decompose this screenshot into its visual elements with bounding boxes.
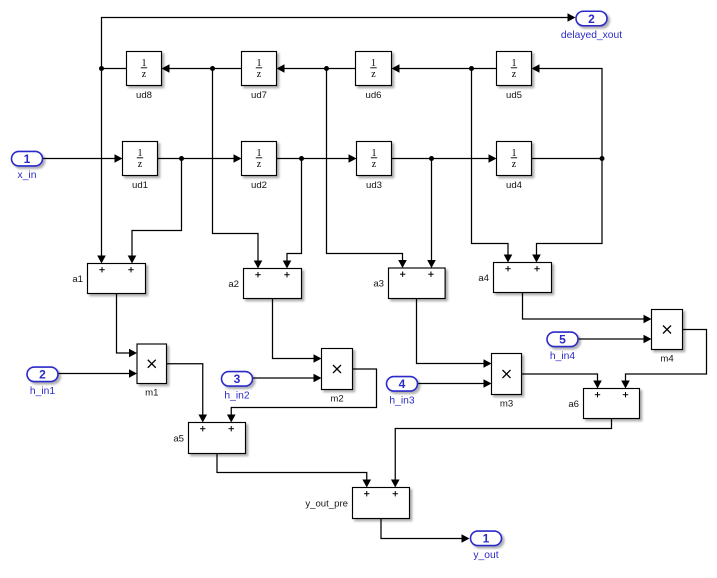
svg-text:1: 1 (372, 148, 377, 159)
svg-text:2: 2 (588, 12, 595, 26)
wire h_in1 to m1 input 2 (58, 369, 138, 378)
svg-text:1: 1 (512, 148, 517, 159)
svg-text:1: 1 (257, 58, 262, 69)
svg-text:a4: a4 (478, 273, 489, 284)
wire m3 output right then down to adder a6 input 1 (522, 374, 602, 389)
wire h_in2 to m2 input 2 (253, 374, 322, 383)
svg-text:1: 1 (371, 58, 376, 69)
wire tap ud3 output straight down to adder a3 input 2 (427, 159, 436, 269)
inport 4 h_in3 (387, 377, 418, 407)
svg-text:2: 2 (39, 368, 46, 382)
junction ud5 output tap (469, 66, 474, 71)
svg-text:a2: a2 (228, 279, 239, 290)
adder y_out_pre (305, 488, 409, 519)
wire ud1 output to ud2 input (158, 154, 242, 163)
wire h_in4 to m4 input 2 (579, 335, 652, 344)
wire m4 output right, down, left to adder a6 input 2 (621, 330, 706, 389)
svg-text:a6: a6 (568, 399, 579, 410)
wire h_in3 to m3 input 2 (418, 379, 492, 388)
junction ud7 output tap (210, 66, 215, 71)
multiplier m1 (137, 344, 167, 399)
svg-text:m4: m4 (660, 354, 674, 365)
wire ud2 output to ud3 input (277, 154, 357, 163)
svg-text:4: 4 (399, 377, 406, 391)
wire tap ud5 output down and right to adder a4 input 1 (472, 69, 513, 263)
junction ud1 output tap (179, 156, 184, 161)
wire ud4 output right then up to ud5 input (532, 64, 603, 158)
svg-text:ud8: ud8 (136, 90, 152, 101)
adder a2 (228, 269, 301, 299)
wire net delayed_xout: ud8 output up and across to output port (102, 13, 576, 68)
inport 1 x_in (12, 151, 43, 181)
svg-text:h_in4: h_in4 (550, 351, 575, 362)
svg-text:1: 1 (142, 58, 147, 69)
wire tap ud7 output down and right to adder a2 input 1 (213, 69, 263, 269)
inport 2 h_in1 (27, 367, 58, 397)
svg-text:a1: a1 (72, 274, 83, 285)
wire m2 output right, down, left to adder a5 input 2 (227, 369, 377, 423)
svg-text:z: z (142, 69, 147, 80)
unit delay ud5 (497, 52, 532, 101)
wire a6 output down then left to y_out_pre input 2 (391, 419, 612, 488)
svg-text:1: 1 (257, 148, 262, 159)
inport 5 h_in4 (547, 332, 578, 362)
adder a1 (72, 264, 145, 294)
unit delay ud6 (356, 52, 392, 101)
wire tap ud1 output down then left to adder a1 input 2 (128, 159, 182, 264)
junction ud6 output tap (324, 66, 329, 71)
outport 1 y_out (471, 531, 502, 561)
svg-text:1: 1 (24, 152, 31, 166)
unit delay ud3 (357, 142, 392, 191)
svg-text:ud7: ud7 (251, 90, 267, 101)
unit delay ud4 (497, 142, 532, 191)
svg-text:ud3: ud3 (366, 180, 382, 191)
wire ud7 output to ud8 input (162, 64, 242, 73)
svg-text:h_in3: h_in3 (389, 395, 414, 406)
svg-text:3: 3 (234, 372, 241, 386)
svg-text:h_in1: h_in1 (30, 386, 55, 397)
svg-text:delayed_xout: delayed_xout (561, 30, 622, 41)
svg-text:z: z (257, 159, 262, 170)
multiplier m4 (652, 310, 683, 365)
svg-text:a5: a5 (173, 433, 184, 444)
junction ud8 output / delayed_xout / a1 tap (99, 66, 104, 71)
svg-text:m1: m1 (145, 388, 158, 399)
svg-text:ud4: ud4 (506, 180, 523, 191)
svg-text:z: z (512, 69, 517, 80)
unit delay ud2 (242, 142, 277, 191)
wire ud8 output to feedback node (102, 68, 127, 70)
svg-text:5: 5 (559, 333, 566, 347)
svg-text:z: z (257, 69, 262, 80)
junction ud2 output tap (299, 156, 304, 161)
svg-text:ud6: ud6 (365, 90, 381, 101)
wire ud5 output to ud6 input (392, 64, 497, 73)
wire a1 output down then right to multiplier m1 input 1 (117, 294, 138, 358)
inport 3 h_in2 (222, 372, 253, 402)
adder a5 (173, 423, 245, 454)
svg-text:z: z (372, 159, 377, 170)
wire tap ud4 output down then left to adder a4 input 2 (532, 159, 602, 263)
wire tap ud6 output down and right to adder a3 input 1 (327, 69, 407, 269)
junction ud4 output tap (600, 156, 605, 161)
adder a6 (568, 389, 639, 419)
adder a4 (478, 263, 551, 293)
wire m1 output right then down to adder a5 input 1 (167, 364, 208, 423)
wire y_out_pre output down then right to y_out port (381, 519, 470, 543)
svg-text:m2: m2 (330, 394, 343, 405)
svg-text:m3: m3 (500, 399, 513, 410)
multiplier m2 (322, 349, 353, 405)
adder a3 (373, 268, 445, 299)
unit delay ud8 (127, 52, 162, 101)
wire tap ud8 output down to adder a1 input 1 (97, 69, 106, 264)
multiplier m3 (492, 354, 522, 410)
svg-text:ud5: ud5 (506, 90, 522, 101)
wire a2 output down then right to multiplier m2 input 1 (273, 299, 322, 363)
unit delay ud7 (242, 52, 277, 101)
svg-text:z: z (512, 159, 517, 170)
svg-text:z: z (371, 69, 376, 80)
svg-text:1: 1 (483, 532, 490, 546)
svg-text:y_out_pre: y_out_pre (305, 498, 348, 509)
wire x_in to ud1 input (43, 154, 123, 163)
wire ud6 output to ud7 input (277, 64, 356, 73)
wire tap ud2 output down then left to adder a2 input 2 (283, 159, 302, 269)
wire ud3 output to ud4 input (392, 154, 497, 163)
svg-text:a3: a3 (373, 279, 384, 290)
wire a4 output down then right to multiplier m4 input 1 (523, 293, 652, 324)
svg-text:h_in2: h_in2 (224, 390, 249, 401)
svg-text:z: z (138, 159, 143, 170)
svg-text:x_in: x_in (18, 170, 37, 181)
svg-text:1: 1 (138, 148, 143, 159)
svg-text:y_out: y_out (473, 550, 498, 561)
svg-text:1: 1 (512, 58, 517, 69)
svg-text:ud1: ud1 (132, 180, 148, 191)
unit delay ud1 (123, 142, 158, 191)
wire a3 output down then right to multiplier m3 input 1 (417, 299, 492, 368)
wire a5 output down then right to y_out_pre input 1 (217, 454, 371, 488)
svg-text:ud2: ud2 (251, 180, 267, 191)
junction ud3 output tap (429, 156, 434, 161)
outport 2 delayed_xout (561, 11, 622, 41)
